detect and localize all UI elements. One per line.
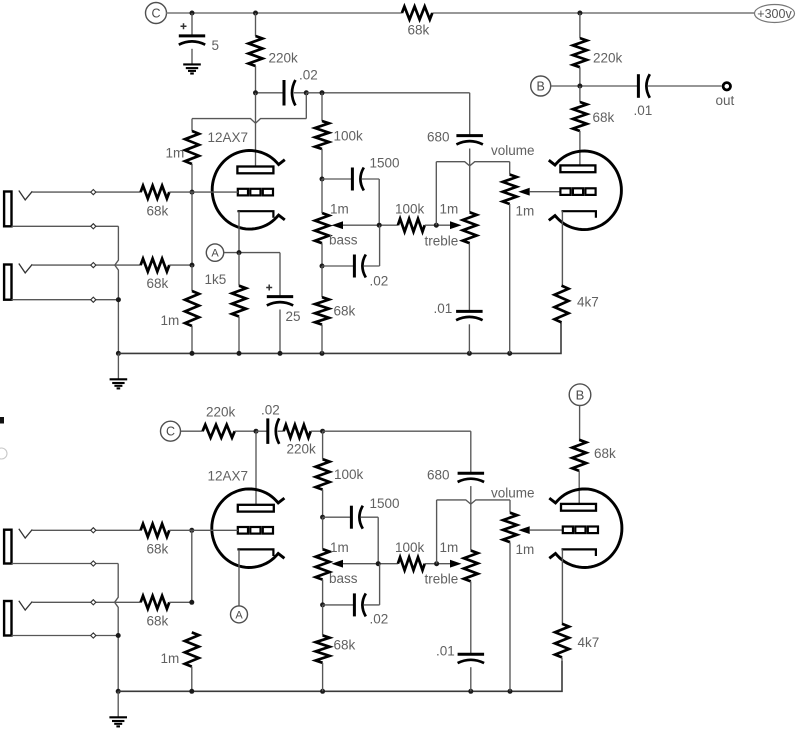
svg-text:C: C (166, 425, 175, 439)
capacitor .02 (ch2 coupling) (256, 403, 280, 444)
wire to treble junction 2 (425, 563, 451, 565)
node C (146, 3, 167, 24)
resistor 100k (treble mix 2) (395, 540, 425, 570)
pot bass arrow (332, 221, 344, 229)
capacitor 1500 (322, 156, 400, 191)
junction input4 (189, 600, 194, 605)
svg-text:.01: .01 (634, 103, 653, 118)
pot volume arrow (518, 188, 530, 196)
wire 680 down 2 (470, 486, 472, 550)
resistor 68k (input 3) (32, 524, 192, 557)
wire jack3 sleeve (12, 563, 119, 565)
junction bus volume (507, 351, 512, 356)
junction rail-C cap (190, 11, 195, 16)
node B2 (569, 384, 591, 406)
svg-text:.02: .02 (370, 612, 389, 627)
svg-text:100k: 100k (334, 467, 364, 482)
ground bus (bottom channel) (118, 661, 562, 692)
edge artifact arc (0, 448, 7, 459)
tube V4 cathode (562, 549, 596, 623)
resistor 68k (input 4) (141, 596, 192, 629)
tube V3 envelope (212, 489, 285, 568)
wire ground drop (hop over jack2 tip) (115, 226, 119, 353)
svg-text:68k: 68k (593, 110, 615, 125)
capacitor 1500 (ch2) (323, 496, 400, 529)
wire ground stem 2 (117, 691, 119, 717)
pot bass arrow 2 (332, 560, 344, 568)
wire jack1 sleeve (12, 225, 119, 227)
resistor 68k (tone bottom 2) (316, 605, 356, 691)
resistor 220k (V2 load) (573, 13, 623, 86)
capacitor 680 (ch2) (427, 431, 484, 482)
wire bass wiper 2 (343, 563, 398, 565)
svg-text:68k: 68k (147, 276, 169, 291)
jack input 4 (4, 601, 32, 636)
power +300v (755, 5, 795, 23)
wire B node (550, 85, 638, 87)
node A (206, 244, 223, 261)
svg-text:68k: 68k (147, 204, 169, 219)
wire to plate node 2 (235, 430, 256, 432)
node A2 (231, 606, 248, 623)
svg-text:68k: 68k (147, 614, 169, 629)
wire treble junction up (435, 162, 437, 226)
svg-text:1m: 1m (440, 202, 459, 217)
junction bus2 .01 (468, 689, 473, 694)
pot 1m volume (491, 143, 535, 353)
capacitor .02 (bass 2) (323, 593, 389, 626)
svg-text:A: A (235, 609, 243, 621)
resistor 4k7 (V2 cathode) (555, 286, 599, 323)
tube V4 grid (563, 527, 598, 534)
capacitor .02 (bass) (322, 255, 388, 289)
ground (input bus) (110, 379, 128, 388)
resistor 220k (ch2 series) (278, 425, 323, 457)
wire treble junction up 2 (436, 500, 438, 564)
wire .02 to grid feed (305, 93, 307, 119)
junction wiper-1500 2 (376, 561, 381, 566)
svg-text:.02: .02 (370, 274, 389, 289)
wire plate lead V1a (255, 93, 257, 167)
wire 680 down (469, 149, 471, 213)
resistor 100k (tone) (315, 93, 363, 179)
junction input2 (190, 263, 195, 268)
wire 1500 down (378, 179, 380, 225)
wire bass lower 2 (322, 517, 324, 605)
junction bus 25 (278, 351, 283, 356)
svg-text:68k: 68k (334, 638, 356, 653)
wire A to cathode (224, 252, 280, 254)
svg-text:1m: 1m (516, 204, 535, 219)
svg-text:5: 5 (212, 38, 220, 53)
wire volume feed (hop over 680 line) (436, 162, 509, 166)
junction cathode (237, 250, 242, 255)
wire to treble junction (425, 224, 451, 226)
svg-text:25: 25 (286, 309, 301, 324)
tube V1a 12AX7 label (208, 130, 249, 145)
jack input 3 (4, 529, 32, 564)
wire jack2 sleeve (12, 299, 119, 301)
resistor 100k (treble mix) (395, 202, 425, 232)
capacitor .01 (treble 2) (436, 581, 484, 691)
svg-text:.01: .01 (436, 644, 455, 659)
resistor 100k (tone 2) (316, 431, 364, 517)
resistor 220k (V1a plate load) (249, 13, 299, 93)
tube V1a plate (237, 167, 273, 174)
junction treble (434, 223, 439, 228)
junction 1500 branch 2 (320, 515, 325, 520)
wire volume wiper to grid (530, 191, 561, 193)
junction .02 low (320, 264, 325, 269)
capacitor 680 (427, 93, 483, 145)
svg-text:treble: treble (425, 234, 459, 249)
resistor 1m (input 2 leak) (161, 265, 200, 353)
svg-text:1500: 1500 (370, 496, 400, 511)
wire ground drop 2 (hop) (115, 564, 119, 692)
out terminal (716, 83, 735, 108)
tube V3 12AX7 label (208, 469, 249, 484)
svg-text:1m: 1m (330, 540, 349, 555)
resistor 1m (ch2 leak) (161, 632, 199, 691)
svg-text:220k: 220k (287, 442, 317, 457)
svg-text:4k7: 4k7 (577, 295, 599, 310)
capacitor 25 (cathode bypass) (266, 253, 300, 354)
capacitor 5 (electrolytic) (179, 13, 219, 64)
svg-text:100k: 100k (395, 540, 425, 555)
svg-text:100k: 100k (395, 202, 425, 217)
junction .02 low 2 (320, 602, 325, 607)
capacitor .01 (treble) (434, 243, 483, 353)
junction bus 68k (320, 351, 325, 356)
wire grid feed (hop over plate lead) (192, 119, 306, 124)
resistor 68k (V2) (573, 86, 615, 165)
junction .02 out (304, 90, 309, 95)
resistor 68k (B+ rail) (402, 7, 432, 38)
junction treble 2 (434, 561, 439, 566)
tube V2 grid (560, 188, 595, 195)
svg-text:100k: 100k (334, 129, 364, 144)
pot 1m treble (425, 202, 477, 249)
tube V3 plate (238, 505, 274, 512)
pot treble arrow (450, 221, 462, 229)
svg-text:bass: bass (329, 233, 358, 248)
svg-text:.01: .01 (434, 301, 453, 316)
svg-text:12AX7: 12AX7 (208, 469, 249, 484)
resistor 4k7 (V4 cathode) (555, 624, 599, 661)
junction rail 220k right (577, 11, 582, 16)
wire grid bus down (191, 192, 193, 265)
svg-text:4k7: 4k7 (578, 635, 600, 650)
junction plate node (253, 90, 258, 95)
wire grid lead V3 (192, 529, 238, 531)
wire jack4 sleeve (12, 635, 119, 637)
svg-text:68k: 68k (408, 23, 430, 38)
junction bus .01 (467, 351, 472, 356)
tube V4 plate (561, 504, 596, 511)
junction B (577, 84, 582, 89)
wire bass lower (321, 179, 323, 266)
svg-text:out: out (716, 93, 735, 108)
wire to 1m top (191, 119, 193, 131)
tube V1a envelope (212, 151, 285, 230)
wire volume feed 2 (hop) (437, 500, 510, 504)
connector diamond j2 sleeve (91, 297, 96, 302)
wire 1500 down 2 (377, 517, 379, 564)
svg-text:C: C (151, 7, 160, 21)
pot 1m bass 2 (316, 540, 358, 586)
wire .02 up 2 (379, 564, 381, 605)
svg-text:680: 680 (427, 468, 450, 483)
svg-text:.02: .02 (261, 403, 280, 418)
svg-text:.02: .02 (299, 68, 318, 83)
svg-text:220k: 220k (269, 51, 299, 66)
wire tone feed (306, 92, 469, 94)
connector diamond j4 sleeve (91, 633, 96, 638)
junction wiper-1500 (377, 223, 382, 228)
svg-text:1m: 1m (161, 313, 180, 328)
wire plate lead V3 (255, 431, 257, 505)
wire jack4 tip (32, 601, 140, 603)
connector diamond j3 sleeve (91, 561, 96, 566)
wire grid lead V1a (192, 191, 238, 193)
tube V2 cathode (562, 211, 596, 285)
junction grid V1a (190, 190, 195, 195)
resistor 68k (tone bottom) (315, 266, 356, 353)
tube V3 cathode (237, 549, 273, 605)
connector diamond j1 sleeve (91, 224, 96, 229)
jack input 1 (4, 191, 32, 227)
wire B2 down (579, 405, 581, 439)
tube V4 envelope (549, 489, 622, 568)
tube V2 envelope (549, 151, 622, 230)
junction 100k top (320, 90, 325, 95)
svg-text:1m: 1m (516, 542, 535, 557)
resistor 1k5 (cathode) (205, 253, 247, 354)
junction bus 1k5 (237, 351, 242, 356)
junction jack2 sleeve (116, 297, 121, 302)
pot treble arrow 2 (450, 560, 462, 568)
wire .02 up (379, 225, 381, 266)
wire tone feed 2 (323, 430, 471, 432)
svg-text:68k: 68k (334, 304, 356, 319)
junction plate node 2 (254, 429, 259, 434)
wire bass wiper (343, 224, 398, 226)
node C2 (161, 421, 181, 441)
connector diamond j3 tip (91, 528, 96, 533)
svg-text:12AX7: 12AX7 (208, 130, 249, 145)
jack input 2 (4, 264, 32, 300)
pot 1m bass (315, 202, 358, 248)
junction bus2 volume (508, 689, 513, 694)
svg-text:1m: 1m (330, 202, 349, 217)
edge artifact top (0, 417, 4, 424)
svg-text:treble: treble (425, 572, 459, 587)
svg-text:volume: volume (491, 486, 535, 501)
pot 1m treble 2 (425, 540, 478, 587)
wire jack2 tip (32, 264, 140, 266)
resistor 1m (grid) (166, 131, 200, 192)
svg-text:1m: 1m (440, 540, 459, 555)
wire grid bus down 2 (191, 530, 193, 602)
junction tone top 2 (320, 429, 325, 434)
svg-text:1m: 1m (161, 651, 180, 666)
svg-text:1k5: 1k5 (205, 272, 227, 287)
tube V3 grid (238, 527, 273, 534)
junction 1500 branch (320, 177, 325, 182)
svg-text:220k: 220k (206, 405, 236, 420)
wire C2 (181, 430, 203, 432)
junction rail 220k (253, 11, 258, 16)
resistor 68k (input 1) (32, 186, 192, 219)
ground (ch2 bus) (109, 717, 127, 726)
svg-text:+300v: +300v (757, 7, 792, 21)
junction ground bus 2 (116, 689, 121, 694)
connector diamond j2 tip (91, 263, 96, 268)
pot volume arrow 2 (518, 526, 530, 534)
ground (filter cap) (183, 64, 201, 73)
connector diamond j1 tip (91, 190, 96, 195)
junction bus 1m (190, 351, 195, 356)
svg-text:bass: bass (329, 571, 358, 586)
connector diamond j4 tip (91, 600, 96, 605)
junction jack4 sleeve (116, 633, 121, 638)
svg-text:A: A (211, 248, 219, 260)
tube V2 plate (560, 165, 595, 172)
wire B+ rail (167, 12, 755, 14)
svg-text:volume: volume (491, 143, 535, 158)
svg-text:1500: 1500 (370, 156, 400, 171)
capacitor .01 (output) (634, 74, 722, 118)
resistor 68k (V4) (572, 440, 616, 504)
node B (531, 76, 551, 96)
capacitor .02 (coupling) (258, 68, 318, 106)
resistor 220k (ch2 load) (203, 405, 236, 438)
svg-text:68k: 68k (594, 446, 616, 461)
wire volume wiper to grid 2 (530, 529, 563, 531)
wire ground stem (117, 353, 119, 379)
junction bus2 1m (189, 689, 194, 694)
svg-text:1m: 1m (166, 146, 185, 161)
resistor 68k (input 2) (141, 259, 192, 291)
svg-text:680: 680 (427, 130, 450, 145)
tube V1a cathode (237, 211, 273, 252)
junction bus2 68k (320, 689, 325, 694)
junction ground bus start (116, 351, 121, 356)
tube V1a grid (238, 189, 273, 196)
pot 1m volume 2 (491, 486, 535, 692)
junction grid V3 (189, 528, 194, 533)
svg-text:220k: 220k (593, 51, 623, 66)
svg-text:68k: 68k (147, 542, 169, 557)
svg-text:B: B (576, 387, 585, 402)
ground bus (top channel) (118, 322, 561, 353)
svg-text:B: B (537, 80, 545, 94)
